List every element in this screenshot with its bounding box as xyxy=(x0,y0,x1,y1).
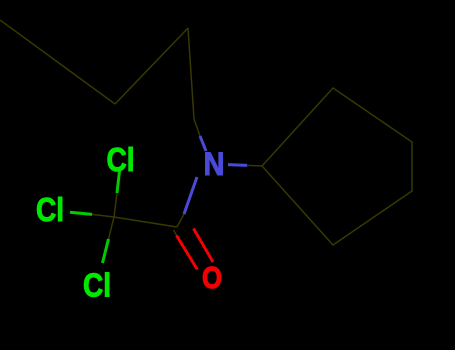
wire: bond C1 to Cl left (olive half) xyxy=(92,214,114,217)
wire: bond N to ring (blue half) xyxy=(228,163,247,167)
wire: C2=O double bond line 1 (red half) xyxy=(177,236,198,270)
wire: bond C1 to Cl top (olive half) xyxy=(114,193,117,217)
node ring: cyclopentane pentagon xyxy=(262,88,412,245)
wire: bond CH2 to N (blue half) xyxy=(200,136,206,151)
wire: C2=O double bond line 1 (olive half) xyxy=(174,230,178,236)
wire: bond C1 to Cl bottom (green half) xyxy=(103,239,109,263)
wire: bond C2 to N (blue half) xyxy=(184,177,197,214)
svg-text:Cl: Cl xyxy=(107,141,135,178)
svg-text:Cl: Cl xyxy=(36,191,64,228)
svg-text:N: N xyxy=(204,146,225,182)
wire: bond N to ring (olive half) xyxy=(247,164,262,167)
wire: C2=O double bond line 2 (red half) xyxy=(194,229,214,263)
wire: alkyl chain segment S1 entering canvas top-left xyxy=(0,20,115,104)
wire: bond C1 to Cl bottom (olive half) xyxy=(109,217,115,239)
wire: bond C1 to Cl left (green half) xyxy=(70,212,92,214)
svg-text:Cl: Cl xyxy=(83,267,111,304)
wire: bond C1 to Cl top (green half) xyxy=(117,171,120,193)
wire: bond C2 to N (olive half) xyxy=(177,214,184,227)
wire: alkyl chain segment S3 descending to N-CH2 xyxy=(188,28,194,119)
svg-text:O: O xyxy=(202,260,222,295)
wire: alkyl chain segment S2 up to peak xyxy=(115,28,188,104)
wire: bond C1 to C2 xyxy=(114,217,177,227)
wire: bond CH2 to N (olive half) xyxy=(194,119,200,136)
